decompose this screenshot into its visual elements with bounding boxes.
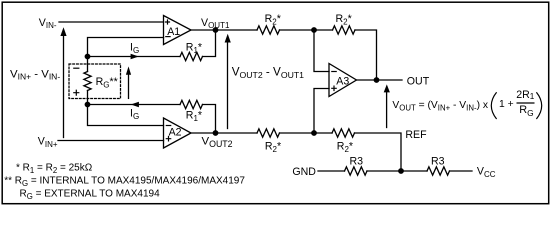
big paren left	[491, 92, 496, 119]
arrowhead RG current up	[126, 66, 131, 74]
wire VOUT2 rail with R2 R2 to REF corner	[191, 133, 401, 171]
wire node to A3 - input	[314, 30, 329, 72]
node VOUT1 junction dot	[213, 27, 219, 33]
wire GND rail with R3 R3 to VCC	[318, 170, 472, 172]
RG box plus mark	[73, 90, 79, 96]
measure arrow VOUT2-VOUT1 shaft	[227, 40, 229, 129]
dashed box around RG	[69, 64, 121, 99]
svg-text:A3: A3	[336, 75, 349, 87]
svg-text:RG = EXTERNAL TO MAX4194: RG = EXTERNAL TO MAX4194	[20, 189, 161, 201]
arrowhead VIN measure up	[60, 27, 66, 36]
wire A1 - input to RG top node	[88, 38, 164, 57]
resistor R1 top	[180, 52, 203, 60]
A1 plus mark	[165, 19, 170, 24]
svg-text:** RG = INTERNAL TO MAX4195/MA: ** RG = INTERNAL TO MAX4195/MAX4196/MAX4…	[4, 176, 245, 188]
svg-text:REF: REF	[405, 129, 427, 141]
formula VOUT equation	[392, 89, 541, 119]
wire A1 output top rail with R2 R2	[191, 30, 377, 80]
op-amp A2 triangle	[164, 118, 192, 148]
wire A3 output to OUT	[357, 79, 403, 81]
resistor R3 left	[345, 167, 367, 175]
arrowhead IG top right	[131, 54, 139, 59]
arrowhead VOUT up	[384, 84, 390, 92]
A1 minus mark	[165, 36, 171, 38]
RG box minus mark	[73, 67, 79, 69]
svg-text:A2: A2	[169, 126, 182, 138]
op-amp A1 triangle	[164, 16, 192, 45]
resistor R1 bottom	[180, 100, 203, 108]
wire node to A3 + input	[314, 89, 329, 134]
fraction bar	[517, 102, 535, 104]
resistor R2 bottom left	[257, 129, 279, 137]
wire VIN- to A1 + input	[59, 21, 164, 23]
measure arrow VOUT shaft	[386, 91, 388, 128]
svg-text:1 +: 1 +	[499, 99, 514, 110]
node RG top junction dot	[85, 54, 91, 60]
A3 plus mark	[331, 86, 337, 92]
wire bottom IG feedback (RG node to R1 to VOUT2)	[88, 105, 216, 134]
footnotes	[4, 163, 245, 201]
resistor R2 top right feedback	[333, 26, 355, 34]
op-amp A3 triangle	[329, 64, 357, 97]
big paren right	[536, 92, 541, 119]
resistor RG vertical	[87, 57, 89, 105]
resistor R2 bottom	[332, 129, 354, 137]
wire RG bottom node to A2 - input	[88, 105, 164, 126]
A3 minus mark	[331, 71, 337, 73]
svg-text:R3: R3	[350, 156, 364, 168]
node A3 + input junction dot	[311, 130, 317, 136]
node A3 - input junction dot	[311, 27, 317, 33]
wire VIN+ to A2 + input	[58, 140, 164, 142]
measure arrow RG current shaft	[128, 73, 130, 98]
resistor R3 right	[427, 167, 449, 175]
wire top IG feedback (RG node to R1 to VOUT1)	[88, 30, 216, 57]
svg-text:A1: A1	[167, 26, 180, 38]
svg-text:GND: GND	[292, 166, 316, 178]
resistor R2 top left	[257, 26, 279, 34]
A2 plus mark	[166, 136, 172, 142]
svg-text:OUT: OUT	[407, 75, 430, 87]
arrowhead IG bottom left	[131, 102, 139, 107]
A2 minus mark	[166, 125, 172, 127]
measure arrow VIN+ - VIN- shaft	[63, 34, 65, 138]
arrowhead VOUT2-VOUT1 up	[225, 34, 231, 43]
node REF divider junction dot	[398, 168, 404, 174]
svg-text:R3: R3	[431, 156, 445, 168]
node OUT junction dot	[374, 77, 380, 83]
node VOUT2 junction dot	[213, 130, 219, 136]
node RG bottom junction dot	[85, 102, 91, 108]
